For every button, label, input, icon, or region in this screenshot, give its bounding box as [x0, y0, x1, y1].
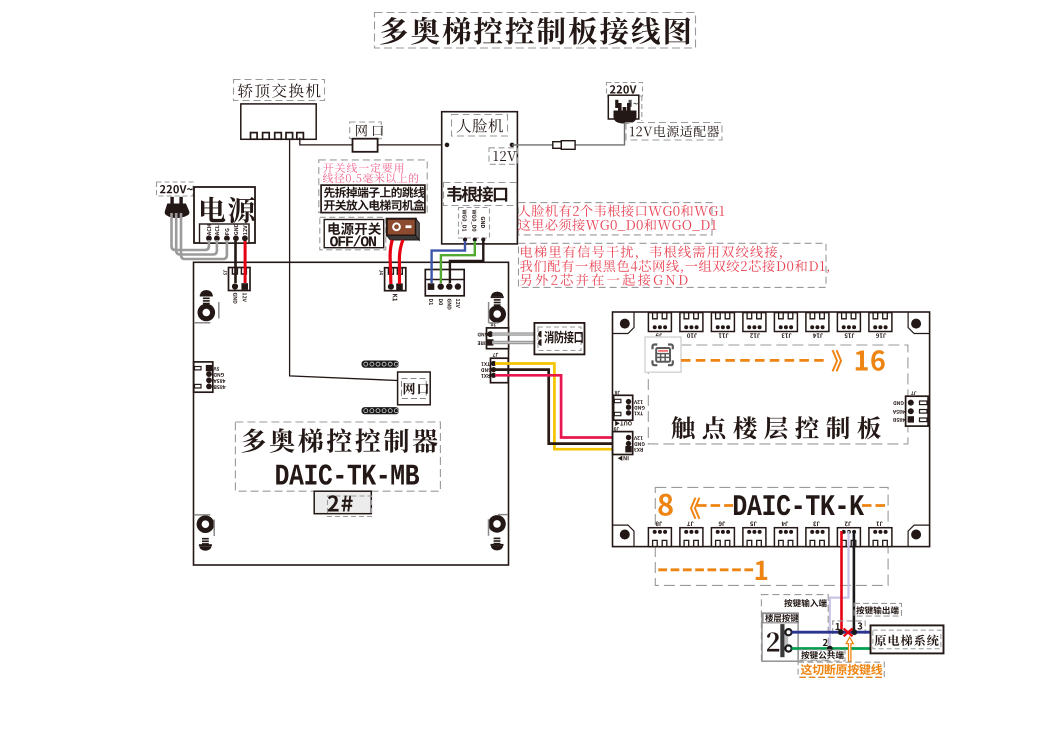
orange number 1	[756, 561, 768, 580]
pin label 485A (flip)	[893, 410, 905, 414]
connector label J7b (flip)	[911, 391, 916, 395]
label J8 (flip)	[656, 522, 663, 527]
face machine box	[442, 112, 518, 244]
upper dashed zone frame	[648, 345, 908, 444]
icon card	[645, 337, 681, 372]
connector K1	[385, 268, 406, 291]
label 楼层按键	[765, 614, 798, 622]
gray wire fire 1	[492, 332, 537, 335]
terminal label 12V	[243, 225, 247, 234]
pin label GND	[481, 217, 485, 228]
pin label FIRE (flip)	[478, 341, 488, 345]
input zone dashed frame	[761, 595, 828, 661]
lower dashed zone frame	[655, 487, 888, 585]
pin label K1 (vert)	[393, 294, 398, 301]
label box 楼层按键	[763, 614, 798, 623]
LAN port box on board	[398, 372, 431, 405]
pin label TX1 (flip)	[634, 412, 643, 416]
fire plug ends	[538, 331, 541, 338]
board title DAIC-TK-MB	[276, 464, 419, 484]
pin label GND (flip)	[478, 333, 488, 337]
pin label GND (flip)	[893, 401, 903, 405]
connector J3 (power in)	[229, 268, 251, 291]
pin strip above LAN	[362, 361, 399, 368]
wire 12V power->board (red)	[244, 241, 247, 283]
label 电源开关	[328, 222, 381, 235]
label frame wiegand pins	[459, 208, 490, 239]
label 220V~	[160, 185, 193, 193]
orange dashed arrow line	[681, 359, 826, 362]
label 网口	[356, 124, 383, 136]
connector J7 serial	[491, 358, 509, 383]
pin label 485B (flip)	[214, 385, 226, 389]
junction dot 2	[827, 646, 833, 652]
fire interface box 消防接口	[534, 323, 584, 355]
pin label 485B (flip)	[893, 418, 905, 422]
label J9 (flip)	[656, 333, 662, 338]
terminal label ACH	[207, 225, 211, 236]
pin label D0 (vert)	[439, 299, 443, 305]
wire button blue	[792, 631, 871, 634]
wire GND power->board	[234, 241, 237, 283]
wire RX1 crimson	[495, 375, 627, 437]
socket slots + tilde	[615, 100, 618, 108]
number 2	[823, 639, 828, 646]
mount hole bottom-left	[620, 530, 630, 540]
wire wiegand D0 (green)	[441, 241, 475, 283]
connector J6 fire	[487, 328, 509, 349]
wire button green	[792, 647, 871, 650]
label OFF/ON	[330, 235, 376, 246]
label 网口 (board)	[404, 383, 429, 395]
junction dot 3	[851, 629, 857, 635]
icon grid/calendar	[653, 345, 658, 350]
label J3 (flip)	[813, 522, 819, 527]
fire box dashed inner	[538, 327, 581, 351]
orange chevron 《	[690, 497, 700, 519]
orange dashes left of DAIC	[697, 504, 733, 507]
wire J2 black down	[853, 531, 856, 631]
AC gray wire 3	[181, 213, 227, 259]
terminal pins	[206, 235, 212, 241]
label frame 轿顶交换机	[234, 80, 325, 101]
terminal block	[200, 224, 250, 243]
label J6 (flip)	[719, 522, 726, 527]
note1 line1	[518, 205, 724, 217]
mains socket box	[608, 95, 639, 119]
note1 dashed frame	[519, 203, 713, 235]
board title 多奥梯控控制器	[242, 428, 438, 453]
connector label J4 (vert)	[379, 270, 383, 275]
connector label J9b (flip)	[614, 427, 619, 431]
pin label 12V (vert)	[243, 293, 247, 302]
power supply box 电源	[194, 187, 255, 243]
button pin lower	[785, 645, 791, 651]
button pin upper	[785, 629, 791, 635]
mount hole bottom-right	[911, 530, 921, 540]
pin label TX1 (flip)	[481, 362, 490, 366]
ferrite/connector on 12V wire	[553, 142, 562, 149]
label J4 (flip)	[782, 522, 789, 527]
screw top-left	[198, 304, 216, 322]
pin label GND (vert)	[447, 299, 451, 310]
label J14 (flip)	[813, 333, 823, 338]
title text 多奥梯控控制板接线图	[380, 17, 690, 45]
AC gray wire 2	[176, 213, 217, 255]
title dashed frame	[375, 13, 696, 49]
AC plug shape	[170, 197, 173, 205]
elevator system box	[871, 625, 944, 653]
label 韦根接口	[447, 186, 507, 202]
pin label 12V (flip)	[634, 400, 643, 404]
bracket bottom-right	[489, 515, 509, 536]
label frame 12V电源适配器	[626, 123, 722, 141]
label 消防接口	[544, 331, 583, 344]
wire TX1 yellow	[495, 364, 627, 450]
terminal label ACL	[215, 225, 219, 235]
bracket bottom-left	[194, 515, 214, 536]
pin label 12V (vert)	[456, 299, 460, 308]
label frame 12V	[489, 148, 517, 165]
node dot at face machine right	[510, 143, 515, 148]
connector label J3 (vert)	[223, 270, 227, 275]
wire GND black	[495, 370, 627, 444]
output label dashed frame	[854, 603, 901, 616]
black note line2 开关放入电梯司机盒	[324, 199, 425, 210]
red note line2 线径0.5毫米以上的	[323, 173, 419, 183]
orange number 8	[658, 494, 672, 516]
label 电源	[201, 197, 255, 223]
label J13 (flip)	[782, 333, 792, 338]
main board outline	[194, 262, 509, 565]
switch ports (5 squares)	[251, 133, 258, 140]
label 2#	[328, 495, 353, 511]
connector label J8b (flip)	[615, 391, 620, 395]
label J7 (flip)	[687, 522, 694, 527]
wire wiegand GND (black)	[450, 241, 483, 283]
note2 line2	[520, 260, 829, 274]
black note box	[321, 185, 425, 213]
label frame 220V~	[157, 182, 194, 196]
number 3	[857, 622, 862, 629]
label frame 220V	[607, 83, 643, 97]
red note line1 开关线一定要用	[323, 163, 403, 173]
2# box	[314, 491, 371, 514]
screw bottom-right	[488, 515, 506, 533]
label J16 (flip)	[876, 333, 886, 338]
orange dashes bottom	[658, 568, 753, 571]
terminal label FG	[225, 228, 229, 234]
label 12V电源适配器	[630, 125, 719, 137]
mount hole top-left	[620, 319, 630, 329]
terminal label GND	[234, 224, 238, 235]
frame around board title	[235, 422, 440, 491]
pin label GND (flip)	[634, 406, 644, 410]
wire switch->LAN-port (vertical+diagonal)	[290, 139, 398, 380]
gray wire fire 2	[492, 341, 537, 344]
label 人脸机	[457, 118, 503, 132]
wire switch->ethernet->face machine	[300, 138, 447, 145]
note2 line3	[520, 274, 687, 286]
socket tilde	[633, 103, 638, 105]
pin label 485A (flip)	[213, 379, 225, 383]
label 按键输出端	[856, 606, 899, 614]
connector J5 (wiegand in)	[425, 270, 464, 296]
label 按键输入端	[784, 599, 827, 607]
connector IN	[613, 432, 633, 455]
wiegand pins on face machine	[463, 238, 467, 242]
warning outer dashed frame	[319, 160, 427, 213]
pin label 12V (flip)	[634, 436, 643, 440]
junction dashed frame	[833, 621, 866, 634]
label DAIC-TK-K	[734, 495, 864, 515]
screw top-right	[488, 305, 506, 323]
label J11 (flip)	[719, 333, 729, 338]
label J1 (flip)	[876, 522, 882, 527]
connector label J7 (flip)	[493, 353, 498, 357]
bracket top-right	[489, 302, 499, 323]
number 1	[836, 623, 840, 630]
note2 line1	[521, 246, 782, 260]
label 原电梯系统	[875, 635, 939, 647]
label J15 (flip)	[845, 333, 855, 338]
power switch dashed frame	[320, 217, 386, 250]
label 220V	[610, 85, 637, 93]
note2 dashed frame	[519, 243, 827, 287]
cut note dashed frame	[798, 662, 884, 677]
pin label WG0_D0	[471, 210, 476, 232]
red wire switch->K1 left	[390, 240, 392, 284]
screw bottom-left	[197, 515, 215, 533]
label 按键公共端	[801, 651, 844, 659]
ethernet coupler box	[353, 139, 378, 152]
rocker switch O and - marks	[393, 223, 400, 230]
LAN box dashed inner	[402, 379, 427, 399]
orange up arrow	[846, 637, 853, 661]
pin label RX3 (flip)	[634, 448, 643, 452]
floor board outline	[613, 312, 930, 547]
power switch label box	[324, 220, 384, 248]
wire wiegand D1 (blue)	[432, 241, 465, 283]
connector label 2# (flip)	[491, 323, 497, 327]
wire J2 red down	[840, 531, 843, 630]
pin strip below LAN	[362, 407, 399, 414]
dashed bracket right of socket	[641, 96, 643, 121]
red X cut mark	[844, 629, 853, 637]
label J2 (flip)	[845, 522, 851, 527]
label J12 (flip)	[750, 333, 760, 338]
pin label WG0_D1	[462, 210, 467, 232]
power plug dark shape	[618, 103, 631, 114]
pin label RX1 (flip)	[481, 374, 490, 378]
node dot at face machine left	[445, 143, 450, 148]
label IN (flip)	[618, 456, 629, 461]
pin label GND (flip)	[634, 442, 644, 446]
red wire switch->K1 right	[399, 240, 403, 284]
label 轿顶交换机	[238, 83, 321, 97]
car-top switch box	[241, 104, 316, 139]
orange number 16	[856, 350, 885, 371]
wire J2 lavender	[830, 531, 849, 646]
connectors J9-J16 (top row)	[648, 313, 671, 332]
connectors J8-J1 (bottom row)	[648, 528, 671, 547]
floor button outer box	[762, 613, 798, 661]
pin label 5V (flip)	[213, 367, 219, 371]
label frame 网口	[350, 122, 382, 139]
mount hole top-right	[911, 319, 921, 329]
note1 line2	[518, 219, 716, 231]
bracket top-left	[194, 302, 219, 323]
connector J8 485 port	[194, 362, 213, 392]
pin label GND (flip)	[214, 373, 224, 377]
pin label GND (vert)	[233, 293, 237, 304]
label frame 韦根接口	[444, 183, 517, 206]
orange chevron 》	[832, 350, 842, 372]
connector J17 485	[906, 396, 929, 426]
pin label GND (flip)	[481, 368, 491, 372]
rocker switch body	[387, 219, 416, 236]
pin label D1 (vert)	[429, 299, 433, 305]
label frame 人脸机	[452, 115, 508, 137]
wire adapter 12V	[512, 123, 625, 145]
orange dashes right of DAIC	[862, 504, 888, 507]
label 这切断原按键线	[801, 664, 883, 675]
label J5 (flip)	[750, 522, 756, 527]
AC gray wire 1	[172, 213, 209, 250]
junction dot 1	[838, 629, 844, 635]
label J10 (flip)	[687, 333, 697, 338]
digit 2 on button	[767, 632, 779, 651]
label OUT (flip)	[615, 421, 632, 426]
button plunger	[780, 624, 784, 657]
2# dashed sub-frame	[328, 496, 372, 517]
label 12V	[493, 151, 516, 161]
board title 触点楼层控制板	[672, 416, 881, 439]
black note line1 先拆掉端子上的跳线	[324, 187, 425, 198]
common label dashed frame	[799, 650, 846, 661]
connector OUT	[614, 395, 633, 420]
